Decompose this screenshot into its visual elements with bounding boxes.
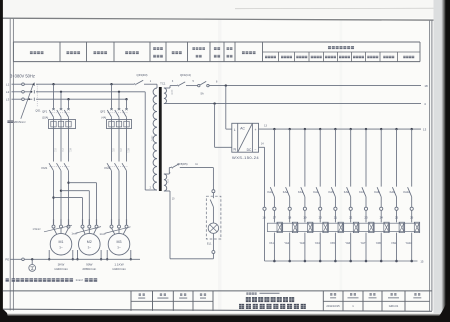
svg-text:QF1: QF1 xyxy=(42,109,48,113)
svg-text:1mm²: 1mm² xyxy=(100,233,106,236)
svg-text:YA6: YA6 xyxy=(345,241,350,245)
svg-text:3~: 3~ xyxy=(117,245,121,249)
svg-text:1440r/min: 1440r/min xyxy=(112,267,126,271)
svg-text:YA5: YA5 xyxy=(330,241,335,245)
svg-text:M3: M3 xyxy=(117,240,122,244)
svg-text:TC1: TC1 xyxy=(160,82,166,86)
svg-text:20: 20 xyxy=(319,215,323,219)
svg-text:18: 18 xyxy=(288,215,292,219)
svg-text:YA8: YA8 xyxy=(376,241,381,245)
svg-text:YA2: YA2 xyxy=(284,241,289,245)
svg-text:VR3.5mm²: VR3.5mm² xyxy=(14,121,26,124)
svg-text:QS1: QS1 xyxy=(35,109,41,113)
svg-text:13: 13 xyxy=(423,127,427,131)
svg-text:24: 24 xyxy=(380,215,384,219)
svg-text:GZD-01: GZD-01 xyxy=(389,304,399,308)
svg-text:YA3: YA3 xyxy=(299,241,304,245)
svg-text:L1: L1 xyxy=(6,82,10,86)
svg-text:+: + xyxy=(255,128,257,132)
svg-text:KA9: KA9 xyxy=(390,190,396,194)
svg-text:KM2: KM2 xyxy=(105,166,111,170)
svg-text:KA1: KA1 xyxy=(268,190,274,194)
svg-text:−: − xyxy=(255,148,257,152)
svg-text:L3: L3 xyxy=(6,97,10,101)
svg-text:16: 16 xyxy=(262,215,266,219)
svg-text:KA8: KA8 xyxy=(374,190,380,194)
svg-text:18: 18 xyxy=(424,84,428,88)
svg-text:110V: 110V xyxy=(170,90,173,96)
svg-text:U11: U11 xyxy=(53,148,55,153)
svg-text:3~380V 50Hz: 3~380V 50Hz xyxy=(10,74,35,79)
svg-text:EL1: EL1 xyxy=(207,243,212,246)
svg-text:KA5: KA5 xyxy=(329,190,335,194)
svg-text:(10A): (10A) xyxy=(42,116,48,120)
svg-text:19: 19 xyxy=(303,215,307,219)
svg-text:KA6: KA6 xyxy=(344,190,350,194)
svg-text:2880r/min: 2880r/min xyxy=(82,267,96,271)
svg-text:25: 25 xyxy=(395,215,399,219)
svg-text:22: 22 xyxy=(349,215,353,219)
svg-text:YA7: YA7 xyxy=(361,241,366,245)
svg-text:L: L xyxy=(234,128,236,132)
svg-text:(4A): (4A) xyxy=(101,116,106,120)
svg-text:AC: AC xyxy=(240,127,245,131)
svg-text:KA7: KA7 xyxy=(359,190,365,194)
svg-text:YA1: YA1 xyxy=(269,241,274,245)
svg-text:KA2: KA2 xyxy=(283,190,289,194)
svg-text:KM1: KM1 xyxy=(42,166,48,170)
svg-text:YA9: YA9 xyxy=(391,241,396,245)
svg-text:90W: 90W xyxy=(86,262,92,266)
svg-text:26: 26 xyxy=(410,215,414,219)
svg-text:3KW: 3KW xyxy=(58,262,65,266)
svg-text:QF2: QF2 xyxy=(100,109,106,113)
svg-text:15: 15 xyxy=(420,259,424,263)
svg-text:2011/10/15: 2011/10/15 xyxy=(326,304,340,308)
svg-text:24V: 24V xyxy=(166,179,169,184)
svg-text:17: 17 xyxy=(273,215,277,219)
svg-text:380V: 380V xyxy=(150,136,153,142)
svg-text:W21: W21 xyxy=(126,148,128,153)
svg-text:DC: DC xyxy=(247,148,252,152)
svg-text:KA3: KA3 xyxy=(298,190,304,194)
svg-text:U21: U21 xyxy=(111,148,113,153)
svg-text:KA4: KA4 xyxy=(313,190,319,194)
svg-text:QF4(C2): QF4(C2) xyxy=(180,73,191,77)
svg-text:V21: V21 xyxy=(119,148,121,153)
svg-text:1.1KW: 1.1KW xyxy=(114,262,123,266)
svg-text:1mm²: 1mm² xyxy=(72,233,78,236)
svg-text:3~: 3~ xyxy=(59,245,63,249)
svg-text:PE: PE xyxy=(5,257,9,261)
svg-text:WXS-150-24: WXS-150-24 xyxy=(232,155,259,160)
svg-text:L2: L2 xyxy=(6,90,10,94)
svg-text:YA4: YA4 xyxy=(315,241,320,245)
svg-text:M2: M2 xyxy=(87,240,92,244)
svg-text:W11: W11 xyxy=(68,148,70,153)
svg-text:3~: 3~ xyxy=(88,245,92,249)
svg-text:SA: SA xyxy=(200,92,204,95)
svg-text:23: 23 xyxy=(364,215,368,219)
svg-text:KA10: KA10 xyxy=(403,190,410,194)
svg-text:21: 21 xyxy=(334,215,338,219)
svg-text:QF3(D3): QF3(D3) xyxy=(137,73,148,77)
svg-text:M1: M1 xyxy=(59,240,64,244)
svg-text:1mm²: 1mm² xyxy=(76,278,83,282)
svg-text:1.5mm²: 1.5mm² xyxy=(33,228,41,231)
svg-text:1440r/min: 1440r/min xyxy=(54,267,68,271)
